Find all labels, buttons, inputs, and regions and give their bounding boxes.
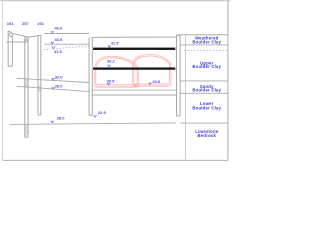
tunnel symbol 30.5 [107, 83, 110, 85]
tunnel right floor emphasis [134, 85, 169, 87]
frame right edge [227, 1, 229, 161]
borehole 101 column [8, 31, 12, 66]
groundwater dashed line 41.5 [43, 46, 89, 50]
panel stratum line upper [92, 89, 176, 91]
level symbol 28.0 [52, 88, 55, 90]
svg-text:Boulder Clay: Boulder Clay [192, 40, 221, 45]
level line 32.0 [17, 78, 89, 82]
svg-text:32.0: 32.0 [55, 75, 64, 80]
level line 46.0 [44, 33, 89, 35]
legend left edge [185, 35, 187, 160]
svg-text:201: 201 [37, 21, 44, 26]
tunnel right inner outline [134, 56, 170, 84]
legend separator weathered/upper [180, 44, 228, 46]
level symbol 32.0 [52, 78, 55, 80]
tunnel left outer outline [94, 56, 138, 87]
svg-text:28.0: 28.0 [55, 84, 64, 89]
right section column [176, 35, 180, 116]
ground surface 101-257 [12, 33, 24, 36]
tunnel right outer outline [132, 55, 171, 87]
borehole 257 sandy hatch [25, 78, 28, 89]
svg-text:46.0: 46.0 [55, 26, 64, 31]
groundwater symbol [52, 47, 55, 49]
legend text weathered boulder clay [192, 35, 221, 44]
frame left edge [2, 1, 4, 161]
legend groundwater dashed [184, 49, 228, 51]
borehole 257 topsoil hatch [25, 38, 28, 40]
legend separator upper/sandy [180, 80, 228, 82]
legend text sandy boulder clay [192, 84, 221, 93]
panel stratum line lower [92, 94, 176, 96]
legend text limestone bedrock [195, 129, 219, 138]
borehole 201 column [38, 35, 41, 115]
borehole 101 topsoil hatch [9, 32, 12, 35]
legend separator sandy/lower [180, 92, 228, 94]
svg-text:41.5: 41.5 [111, 40, 120, 45]
borehole 257 limestone hatch [25, 125, 28, 136]
svg-text:Boulder Clay: Boulder Clay [192, 64, 221, 69]
svg-text:36.2: 36.2 [107, 58, 116, 63]
level line 28.0 [17, 86, 89, 91]
legend text upper boulder clay [192, 60, 221, 69]
frame bottom edge [3, 159, 229, 161]
legend text lower boulder clay [192, 101, 221, 110]
frame top edge [0, 0, 230, 1]
bottom level line [10, 123, 176, 125]
svg-text:Boulder Clay: Boulder Clay [192, 105, 221, 110]
tunnel symbol 36.2 [108, 65, 111, 67]
borehole 201 sandy hatch [38, 85, 41, 91]
svg-text:30.5: 30.5 [107, 79, 116, 84]
tunnel cover bar lower [93, 67, 175, 69]
svg-text:22.5: 22.5 [98, 110, 107, 115]
svg-text:41.5: 41.5 [54, 49, 63, 54]
svg-text:101: 101 [7, 21, 14, 26]
borehole 257 column [25, 36, 28, 137]
tunnel left inner outline [96, 58, 137, 85]
bottom level symbol [51, 121, 54, 123]
svg-text:Boulder Clay: Boulder Clay [192, 87, 221, 92]
left section column [89, 37, 92, 115]
tunnel symbol 41.5 [108, 46, 111, 48]
tunnel panel ground line [92, 36, 176, 38]
svg-text:30.8: 30.8 [152, 79, 161, 84]
svg-text:257: 257 [22, 21, 29, 26]
stratum line through boreholes 101-257 [6, 41, 28, 43]
level line 43.0 [44, 43, 89, 45]
svg-text:Bedrock: Bedrock [198, 133, 217, 138]
tunnel left floor emphasis [96, 86, 137, 88]
tunnel symbol 30.8 [149, 83, 152, 85]
tunnel cover bar upper [93, 48, 175, 50]
svg-text:28.0: 28.0 [57, 116, 66, 121]
level symbol 43.0 [51, 42, 54, 44]
column 22.5 symbol [94, 116, 97, 118]
legend separator lower/limestone [180, 122, 228, 124]
svg-text:43.0: 43.0 [55, 37, 64, 42]
legend top line [178, 34, 229, 36]
level symbol 46.0 [51, 32, 54, 34]
ground surface 257-201 [28, 36, 38, 37]
